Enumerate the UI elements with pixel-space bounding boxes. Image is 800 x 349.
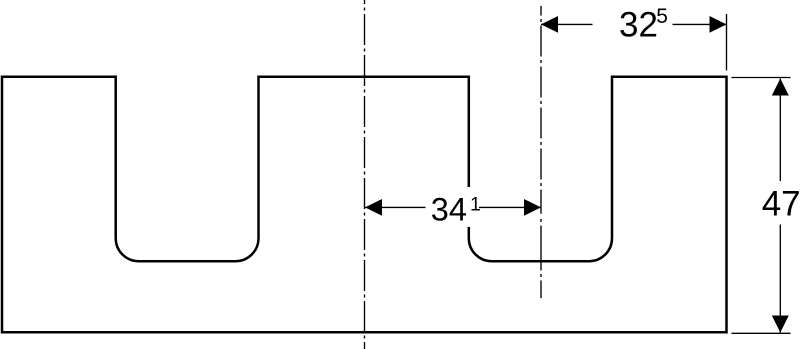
svg-text:32: 32 xyxy=(619,6,658,45)
svg-text:5: 5 xyxy=(656,5,668,28)
svg-text:1: 1 xyxy=(470,193,481,215)
svg-text:34: 34 xyxy=(431,192,467,228)
svg-text:47: 47 xyxy=(762,185,800,224)
